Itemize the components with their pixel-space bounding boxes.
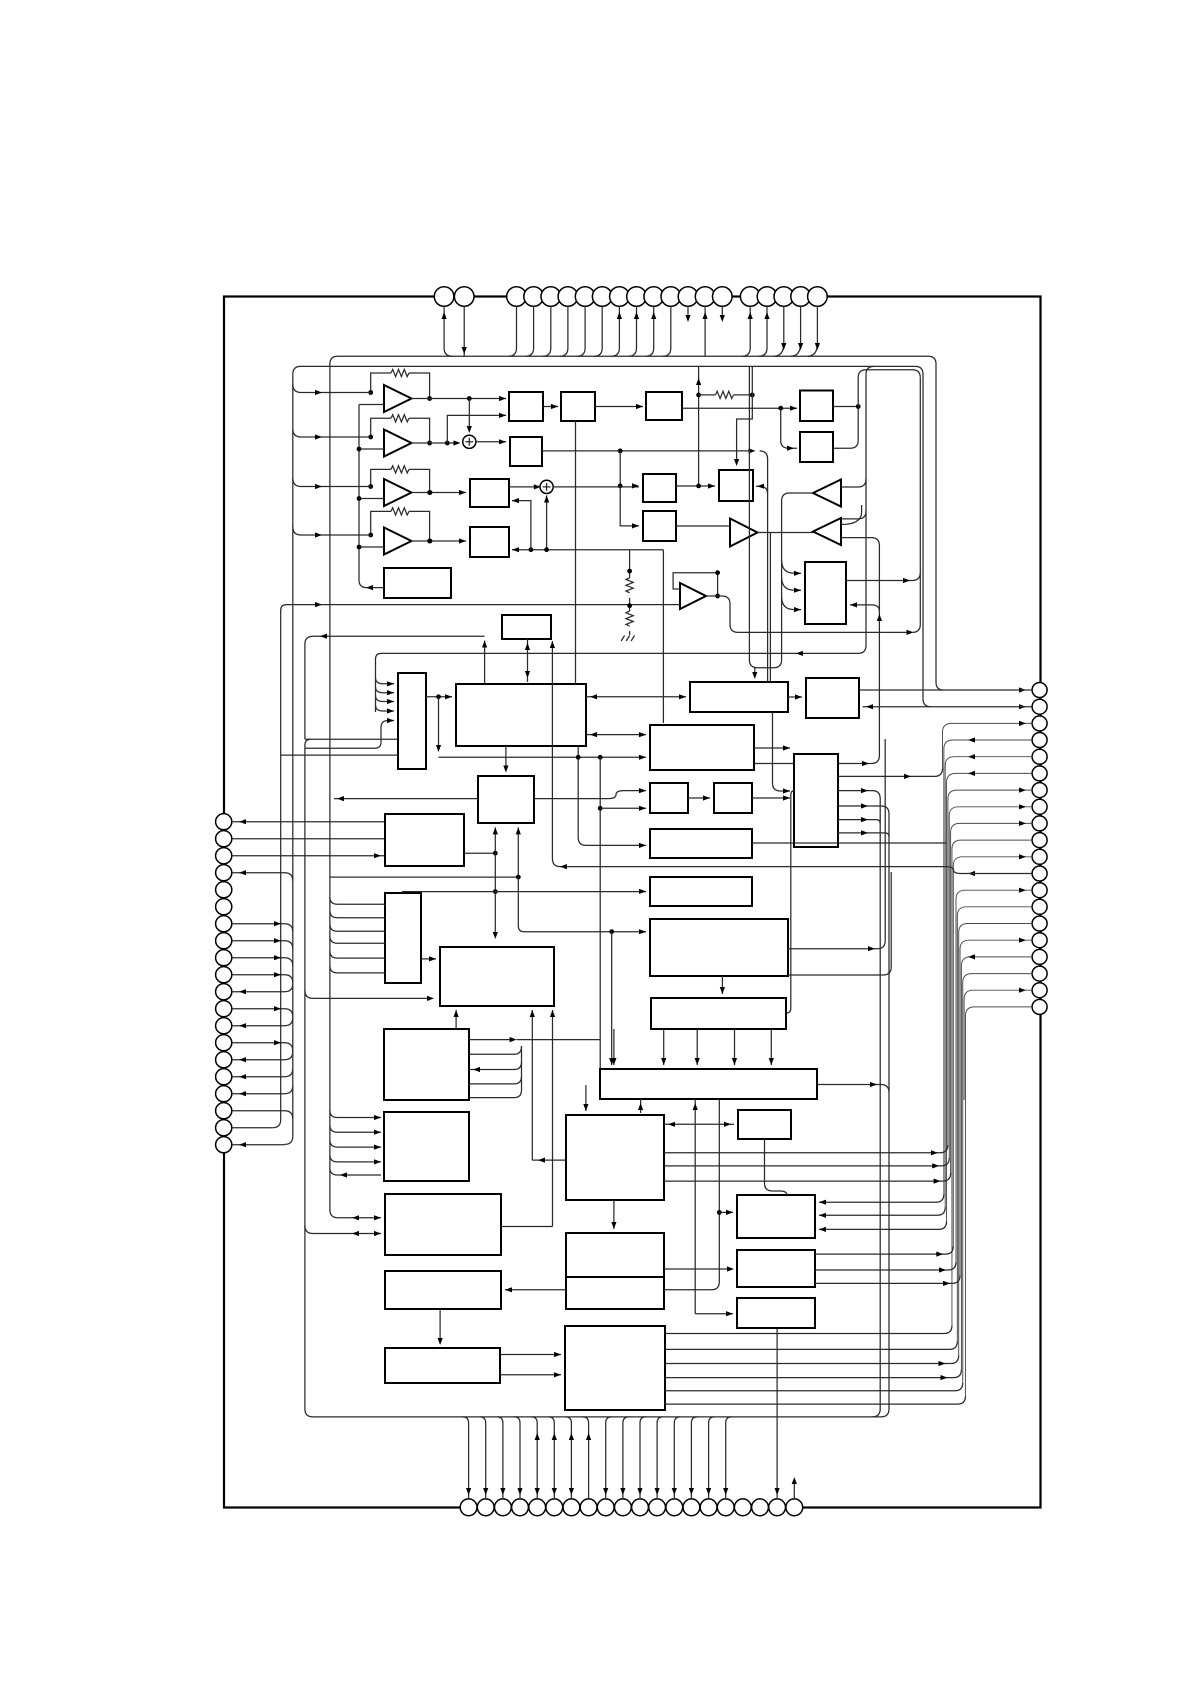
arrowhead into bottom pin19 xyxy=(775,1488,780,1495)
arrowhead top pin x=767.0 (up) xyxy=(764,312,769,319)
wire bottom pin11 to bus xyxy=(640,1417,646,1499)
arrowhead bottom pin8 (up) xyxy=(586,1433,591,1440)
box M2 xyxy=(470,527,509,557)
wire RE east y975 riser x891 xyxy=(788,872,891,975)
wire harness ch15 to right pin15 xyxy=(959,924,1033,1356)
wire bottom pin7 to bus xyxy=(565,1417,571,1499)
arrowhead RE east xyxy=(868,946,875,951)
box RT (right tall) xyxy=(794,754,838,847)
box BB2 (large) xyxy=(440,947,554,1006)
wire BB1 up to y636 bus xyxy=(484,641,486,685)
junction S3 line x620 xyxy=(618,449,623,454)
arrowhead into L3 y1217.8 xyxy=(374,1215,381,1220)
box A xyxy=(643,474,676,502)
riser x495 down xyxy=(494,853,496,936)
left pin y=1127.7 xyxy=(216,1120,232,1136)
arrowhead from right pin4 (left) xyxy=(968,737,975,742)
left pin y=906.7 xyxy=(216,899,232,915)
bus y636.2 west joining bus V-305 xyxy=(305,636,485,739)
left pin y=821.7 xyxy=(216,814,232,830)
wire V1 to BB1 xyxy=(426,696,452,698)
wire A2 output to sum1 xyxy=(412,442,458,444)
junction lower-input chain y=498.5 xyxy=(357,496,362,501)
wire x611.7 down to WB top xyxy=(611,932,613,1065)
junction lower-input chain y=449 xyxy=(357,447,362,452)
arrowhead into S2 xyxy=(551,404,558,409)
arrowhead into V1 y=711.0 xyxy=(387,708,394,713)
arrowhead into RF top xyxy=(720,987,725,994)
arrowhead into M3 top xyxy=(503,766,508,773)
wire bottom pin2 to bus xyxy=(480,1417,486,1499)
arrowhead WB east xyxy=(870,1082,877,1087)
box L1 xyxy=(384,568,451,598)
arrowhead west on y636.2 xyxy=(320,634,327,639)
wire fan into V1 y=692.7 xyxy=(376,687,395,693)
box S3 xyxy=(510,437,542,466)
arrowhead on bus y604.6 xyxy=(315,602,322,607)
arrowhead RT output y=819.6 xyxy=(861,817,868,822)
wire bottom pin5 to bus xyxy=(531,1417,537,1499)
node op-amp A2 output xyxy=(427,441,432,446)
arrowhead RT east y776.4 xyxy=(904,774,911,779)
arrowhead into RD y891.4 xyxy=(639,889,646,894)
arrowhead into C4 y1354 xyxy=(554,1352,561,1357)
top pin x=444.1 xyxy=(434,287,454,307)
arrowhead into rbox right xyxy=(866,704,873,709)
divider top lead xyxy=(629,550,631,578)
wire bus - left pin17 xyxy=(232,1086,293,1094)
wire junction down to bus y757 xyxy=(438,697,440,749)
wire left pin12 into bus xyxy=(232,1009,293,1017)
junction y931.7 x611.7 xyxy=(609,929,614,934)
arrowhead top pin2 (down) xyxy=(462,347,467,354)
arrowhead into M3 bottom x518 xyxy=(516,827,521,834)
wire bus into V3 y=1147.1 xyxy=(330,1140,381,1147)
junction lower-input chain y=547 xyxy=(357,545,362,550)
wire RF down to WB x=697.2 xyxy=(696,1029,698,1065)
box C2 (large) xyxy=(566,1115,664,1200)
arrowhead west on y866.6 xyxy=(560,864,567,869)
wire left pin14 into bus xyxy=(232,1043,293,1051)
arrowhead from right pin17 (left) xyxy=(968,954,975,959)
bottom pin x=502.9 xyxy=(495,1499,512,1516)
arrowhead into bottom pin12 xyxy=(655,1488,660,1495)
wire bus into V2 y=931.2 xyxy=(330,924,385,931)
arrowhead VX output xyxy=(510,1037,517,1042)
right pin y=790.1 xyxy=(1032,783,1047,798)
arrowhead C4 east y=1377.6 xyxy=(941,1375,948,1380)
wire fan into V1 y=711.0 xyxy=(376,705,395,711)
left pin y=838.7 xyxy=(216,831,232,847)
wire RF bottom into WB top x614 xyxy=(613,1029,615,1065)
arrowhead into BB2 y998 xyxy=(427,996,434,1001)
bus y757.3 east to RA xyxy=(439,756,647,758)
wire harness ch6 to right pin6 xyxy=(947,773,1033,1221)
wire C4 east y=1404.1 to harness xyxy=(665,1396,965,1404)
arrowhead bottom pin5 (up) xyxy=(535,1433,540,1440)
wire top pin x=767.0 to bus A xyxy=(759,306,767,356)
bus y604.6 (mid horizontal) xyxy=(287,604,681,606)
bottom pin x=674.3 xyxy=(666,1499,683,1516)
wire SR down then east into Rb1 top xyxy=(765,1139,787,1195)
arrowhead into RT y791 xyxy=(783,788,790,793)
arrowhead into bottom pin3 xyxy=(500,1488,505,1495)
wire VX up to BB2 xyxy=(455,1010,457,1029)
arrowhead west y1217.8 xyxy=(352,1215,359,1220)
wire bus - left pin11 xyxy=(232,984,293,992)
wire S2-R1 xyxy=(595,406,643,408)
junction x518 y877 xyxy=(516,875,521,880)
buffer T3 (left-pointing) xyxy=(813,518,841,545)
bridge S3-line to sum2-line xyxy=(619,451,621,486)
wire left pin8 into bus xyxy=(232,941,293,949)
wire bus to op-amp A2 input xyxy=(293,429,371,437)
wire bus - left pin4 xyxy=(232,873,293,881)
arrowhead into row2 xyxy=(679,694,686,699)
wire harness ch4 to right pin4 xyxy=(944,740,1032,1194)
wire riser M3 right-bottom xyxy=(517,827,519,877)
wire left pin1 - box L2 xyxy=(232,821,385,823)
wire A3 output to box M1 xyxy=(412,492,467,494)
wire box Rb3 down to bottom pin19 xyxy=(776,1328,778,1499)
wire left pin10 into bus xyxy=(232,975,293,983)
node op-amp A1 input xyxy=(368,390,373,395)
arrowhead into bottom pin14 xyxy=(689,1488,694,1495)
top bus A (y356) with right side V-936 xyxy=(330,356,944,690)
arrowhead into V1 y=683.8 xyxy=(387,681,394,686)
left bus wire V-330 (loop A left) ending at L3 row xyxy=(330,364,338,1218)
arrowhead into M2 right xyxy=(512,547,519,552)
wire from bus B down x866, west along y653.4, down into V1 fan xyxy=(376,366,875,712)
box V2 (tall) xyxy=(385,893,421,983)
arrowhead into rbox xyxy=(795,694,802,699)
feedback resistor op-amp A1 xyxy=(391,369,409,376)
arrowhead into M1 xyxy=(459,490,466,495)
box WB (wide bar) xyxy=(600,1069,817,1099)
arrowhead on S3 line xyxy=(749,448,756,453)
wire sum1 to box S3 xyxy=(475,441,506,443)
arrowhead from right pin5 (left) xyxy=(968,754,975,759)
arrowhead into left pin1 xyxy=(239,819,246,824)
arrowhead into BB1 y697 xyxy=(590,694,597,699)
box S1 xyxy=(509,392,543,421)
feedback wire op-amp A1 (right riser) xyxy=(409,373,430,399)
arrowhead up x552.4 xyxy=(550,641,555,648)
resistor R-par (between R1 and R2) xyxy=(716,391,734,398)
arrowhead down at x438.5 xyxy=(436,745,441,752)
wire C3b west to L4 xyxy=(505,1289,566,1291)
wire y877.1 from left bus xyxy=(330,876,518,878)
wire rbox output to right pin1 xyxy=(859,689,1032,691)
wire S3 line curving down x767.6 into row2 top xyxy=(760,451,768,682)
arrowhead from right pin12 (left) xyxy=(968,871,975,876)
arrowhead RT output y=790.6 xyxy=(861,788,868,793)
junction A4-out xyxy=(428,539,433,544)
box M3 xyxy=(478,776,534,823)
wire bus - left pin13 xyxy=(232,1018,293,1026)
arrowhead up riser x879.4 xyxy=(877,614,882,621)
arrowhead into Rb1 y=1229.4 xyxy=(819,1227,826,1232)
wire fan into V1 y=701.5 xyxy=(376,696,395,702)
wire left pin7 into bus xyxy=(232,924,293,932)
wire RB1-RB2 xyxy=(688,797,710,799)
box R3 xyxy=(800,432,833,462)
arrowhead west y1175 xyxy=(340,1172,347,1177)
left pin y=872.7 xyxy=(216,865,232,881)
bottom pin x=571.4 xyxy=(563,1499,580,1516)
box C xyxy=(643,511,676,541)
wire V3 west row y1175 xyxy=(330,1168,381,1175)
junction A2-out xyxy=(445,441,450,446)
wire L2 right to riser x495 xyxy=(464,852,495,854)
wire WB east joining riser x889 xyxy=(817,1085,889,1093)
top pin x=653.7 xyxy=(644,287,664,307)
left pin y=855.7 xyxy=(216,848,232,864)
node resistor right xyxy=(750,393,755,398)
arrowhead Rb2 east y=1254.1 xyxy=(936,1252,943,1257)
arrowhead into S1 xyxy=(499,396,506,401)
wire y632.4 riser x920.3 to y369.8 xyxy=(912,378,920,633)
arrowhead into box B top xyxy=(734,459,739,466)
box V3 xyxy=(384,1112,469,1181)
wire A1 output to box S1 xyxy=(412,398,507,400)
wire R3 output riser x858.2 up, east y369.8, down x920.3 xyxy=(833,370,920,448)
node op-amp A1 output xyxy=(427,396,432,401)
box RB1 xyxy=(650,783,688,813)
arrowhead stub x=722.3 (down) xyxy=(720,315,725,322)
arrowhead top pin x=705.1 (up) xyxy=(703,312,708,319)
box M1 xyxy=(470,479,509,507)
arrowhead into right pin1 xyxy=(1019,687,1026,692)
wire bus to op-amp A4 input xyxy=(293,527,371,535)
arrowhead into R3 xyxy=(787,446,794,451)
arrowhead RA output east xyxy=(862,761,869,766)
arrowhead into V3 y=1117.5 xyxy=(374,1115,381,1120)
wire bus into V2 y=917.7 xyxy=(330,911,385,918)
arrowhead top pin x=636.5 (up) xyxy=(634,312,639,319)
arrowhead C4 east y=1363.5 xyxy=(939,1361,946,1366)
wire riser into sum2 bottom xyxy=(546,496,548,550)
stub down into C2 top xyxy=(585,1085,587,1111)
arrowhead into WB x=734.5 xyxy=(732,1058,737,1065)
wire harness ch7 to right pin7 xyxy=(948,790,1032,1145)
wire x719.3 into Rb1 left xyxy=(719,1211,733,1213)
arrowhead into bottom pin1 xyxy=(466,1488,471,1495)
arrowhead into RB1 y808.3 xyxy=(639,806,646,811)
wire branch down into box C xyxy=(620,486,639,526)
right pin y=823.4 xyxy=(1032,816,1047,831)
feedback wire op-amp A4 (left riser) xyxy=(371,511,391,535)
wire row2 bottom down to RT left y791 xyxy=(773,712,791,791)
arrowhead into right pin8 xyxy=(1019,804,1026,809)
stub into V2 top xyxy=(401,892,403,893)
bottom pin x=554.3 xyxy=(546,1499,563,1516)
junction A-B wire xyxy=(696,484,701,489)
wire x663 riser to M2 (y549.7) xyxy=(512,549,663,551)
top pin x=464.2 xyxy=(454,287,474,307)
wire bottom pin8 to bus xyxy=(583,1417,589,1499)
wire left pin3 - box L2 xyxy=(232,855,385,857)
IC package outline xyxy=(224,297,1041,1508)
arrowhead x532 into BB2 xyxy=(530,1010,535,1017)
arrowhead into WB x=771.3 xyxy=(769,1058,774,1065)
wire C2 top up into WB bottom xyxy=(640,1099,642,1113)
wire top pin x=636.5 to bus A xyxy=(628,306,636,356)
arrowhead into box D y=573.3 xyxy=(794,571,801,576)
top pin x=750.2 xyxy=(740,287,760,307)
wire branch west into box B right edge xyxy=(756,486,768,494)
wire harness ch10 to right pin10 xyxy=(952,840,1032,1325)
box R1 xyxy=(646,392,682,420)
arrowhead west on L1 wire xyxy=(366,585,373,590)
arrowhead into box B xyxy=(708,483,715,488)
arrowhead into L3 y1233.5 xyxy=(374,1231,381,1236)
box Rb3 xyxy=(737,1298,815,1328)
arrowhead west y1233.5 xyxy=(352,1231,359,1236)
left pin y=889.7 xyxy=(216,882,232,898)
right pin y=990.2 xyxy=(1032,983,1047,998)
arrowhead into BB2 xyxy=(429,956,436,961)
arrowhead into WB x=697.2 xyxy=(695,1058,700,1065)
arrowhead into sum1 left xyxy=(454,440,461,445)
junction A3-out xyxy=(428,490,433,495)
arrowhead top pin x=800.6 (down) xyxy=(798,343,803,350)
wire S1-S2 xyxy=(543,406,558,408)
wire top pin x=602.2 to bus A (curve left) xyxy=(594,306,602,356)
wire VX output continues east to riser x600.2 xyxy=(517,1039,601,1041)
top pin x=533.6 xyxy=(524,287,544,307)
junction x495 y891.6 xyxy=(493,889,498,894)
arrowhead down into BB1 xyxy=(525,671,530,678)
arrowhead x552 into BB2 xyxy=(550,1010,555,1017)
wire Rb2 east y=1254.1 to harness xyxy=(815,1246,953,1254)
top pin x=767.0 xyxy=(757,287,777,307)
bus vertical x663 down to box RA top xyxy=(662,550,664,723)
arrowhead into bottom pin13 xyxy=(672,1488,677,1495)
arrowhead x495 into BB2 top xyxy=(493,932,498,939)
wire C2 east y=1181.1 to harness xyxy=(664,1173,951,1181)
arrowhead into left pin4 xyxy=(239,870,246,875)
arrowhead stub x=688 (down) xyxy=(685,315,690,322)
junction A1-out xyxy=(467,396,472,401)
wire RA to RT xyxy=(754,747,790,749)
wire top pin x=653.7 to bus A xyxy=(646,306,654,356)
arrowhead Rb2 east y=1283.4 xyxy=(943,1281,950,1286)
arrowhead into C2 xyxy=(668,1122,675,1127)
arrowhead into C2 top x585.9 xyxy=(583,1104,588,1111)
arrowhead C2 east y=1165.9 xyxy=(932,1163,939,1168)
arrowhead into box B right xyxy=(757,484,764,489)
arrowhead pin14 to bus xyxy=(274,1040,281,1045)
arrowhead into box D right xyxy=(850,602,857,607)
arrowhead into box C xyxy=(632,523,639,528)
wire RT y819.6 into x880 xyxy=(838,820,880,824)
arrowhead into R2 xyxy=(790,406,797,411)
bus y866.6 from riser x552.4 east into right pin12 xyxy=(552,641,1032,874)
wire row2-rbox xyxy=(788,696,802,698)
wire top pin x=619.4 to bus A xyxy=(611,306,619,356)
lower input stub op-amp A1 xyxy=(359,404,384,406)
arrowhead into bottom pin15 xyxy=(706,1488,711,1495)
box L5 xyxy=(385,1348,500,1383)
bottom pin x=691.4 xyxy=(683,1499,700,1516)
wire VX fan y=1097.6 xyxy=(469,1090,522,1098)
arrowhead into box L2 (pin3) xyxy=(374,853,381,858)
wire x600.2 into RB1 y808.3 xyxy=(600,807,646,809)
right pin y=923.5 xyxy=(1032,916,1047,931)
wire VX fan y=1054.3 xyxy=(469,1047,522,1055)
wire bus into V3 y=1132.2 xyxy=(330,1125,381,1132)
wire harness ch19 to right pin19 xyxy=(964,990,1032,1100)
arrowhead box D output xyxy=(903,578,910,583)
arrowhead pin8 to bus xyxy=(274,938,281,943)
wire harness into Rb1 y=1202.2 xyxy=(819,1194,944,1202)
arrowhead into M2 xyxy=(459,538,466,543)
arrowhead into bottom pin16 xyxy=(723,1488,728,1495)
wire bottom pin10 to bus xyxy=(623,1417,629,1499)
wire left pin19 from bus V-280 xyxy=(232,1127,273,1129)
arrowhead top pin x=750.2 (up) xyxy=(748,312,753,319)
arrowhead into V1 y720.5 xyxy=(387,718,394,723)
top pin x=619.4 xyxy=(610,287,630,307)
wire VX output y1039 xyxy=(469,1039,513,1041)
arrowhead up at x484.6 xyxy=(482,641,487,648)
wire C4 east y=1349.4 to harness xyxy=(665,1341,957,1349)
arrowhead into S3 xyxy=(499,439,506,444)
wire T2 output down x781.6, west y667.7, riser x749.4 to bus xyxy=(749,366,813,667)
wire from left bus up into V1 y720.5 xyxy=(305,721,394,749)
wire Rb2 east y=1283.4 to harness xyxy=(815,1275,960,1283)
arrowhead top pin x=817.4 (down) xyxy=(815,343,820,350)
left bus wire V-293 (loop B left) ending at left pin20 xyxy=(285,374,293,1144)
box VX xyxy=(384,1029,469,1100)
left pin y=1025.7 xyxy=(216,1018,232,1034)
wire harness ch13 to right pin13 xyxy=(956,890,1032,1262)
wire bottom pin15 to bus xyxy=(709,1417,715,1499)
wire branch west into box D right edge xyxy=(850,605,879,611)
bottom pin x=657.1 xyxy=(649,1499,666,1516)
stub below top pin x=722.3 xyxy=(721,306,723,316)
bottom pin x=622.9 xyxy=(615,1499,632,1516)
buffer T1 xyxy=(730,519,758,547)
arrowhead into R1 xyxy=(636,404,643,409)
wire top pin x=670.8 to bus A xyxy=(663,306,671,356)
stub below top pin x=688 xyxy=(687,306,689,316)
arrowhead into bottom pin7 xyxy=(569,1488,574,1495)
node op-amp A3 output xyxy=(427,490,432,495)
node op-amp A2 input xyxy=(368,435,373,440)
right pin y=873.5 xyxy=(1032,866,1047,881)
arrowhead bottom pin7 (up) xyxy=(569,1433,574,1440)
arrowhead top pin x=653.7 (up) xyxy=(651,312,656,319)
wire top pin x=585.1 to bus A (curve left) xyxy=(577,306,585,356)
wire top pin x=550.8 to bus A (curve left) xyxy=(543,306,551,356)
arrowhead into bottom pin6 xyxy=(552,1488,557,1495)
box L4 xyxy=(385,1271,501,1309)
wire VX fan y=1069.5 xyxy=(469,1062,522,1070)
right pin y=723.4 xyxy=(1032,716,1047,731)
arrowhead into sum2 xyxy=(534,484,541,489)
arrowhead into RT xyxy=(783,745,790,750)
wire BB1-row2 (bidirectional) xyxy=(586,696,686,698)
arrowhead into L4 xyxy=(505,1287,512,1292)
junction R2-out riser xyxy=(856,404,861,409)
bottom pin x=725.7 xyxy=(717,1499,734,1516)
resistor divider lower xyxy=(626,611,633,626)
wire C2 down to C3a xyxy=(613,1200,615,1229)
wire S3 output east xyxy=(542,450,752,452)
right pin y=940.2 xyxy=(1032,933,1047,948)
